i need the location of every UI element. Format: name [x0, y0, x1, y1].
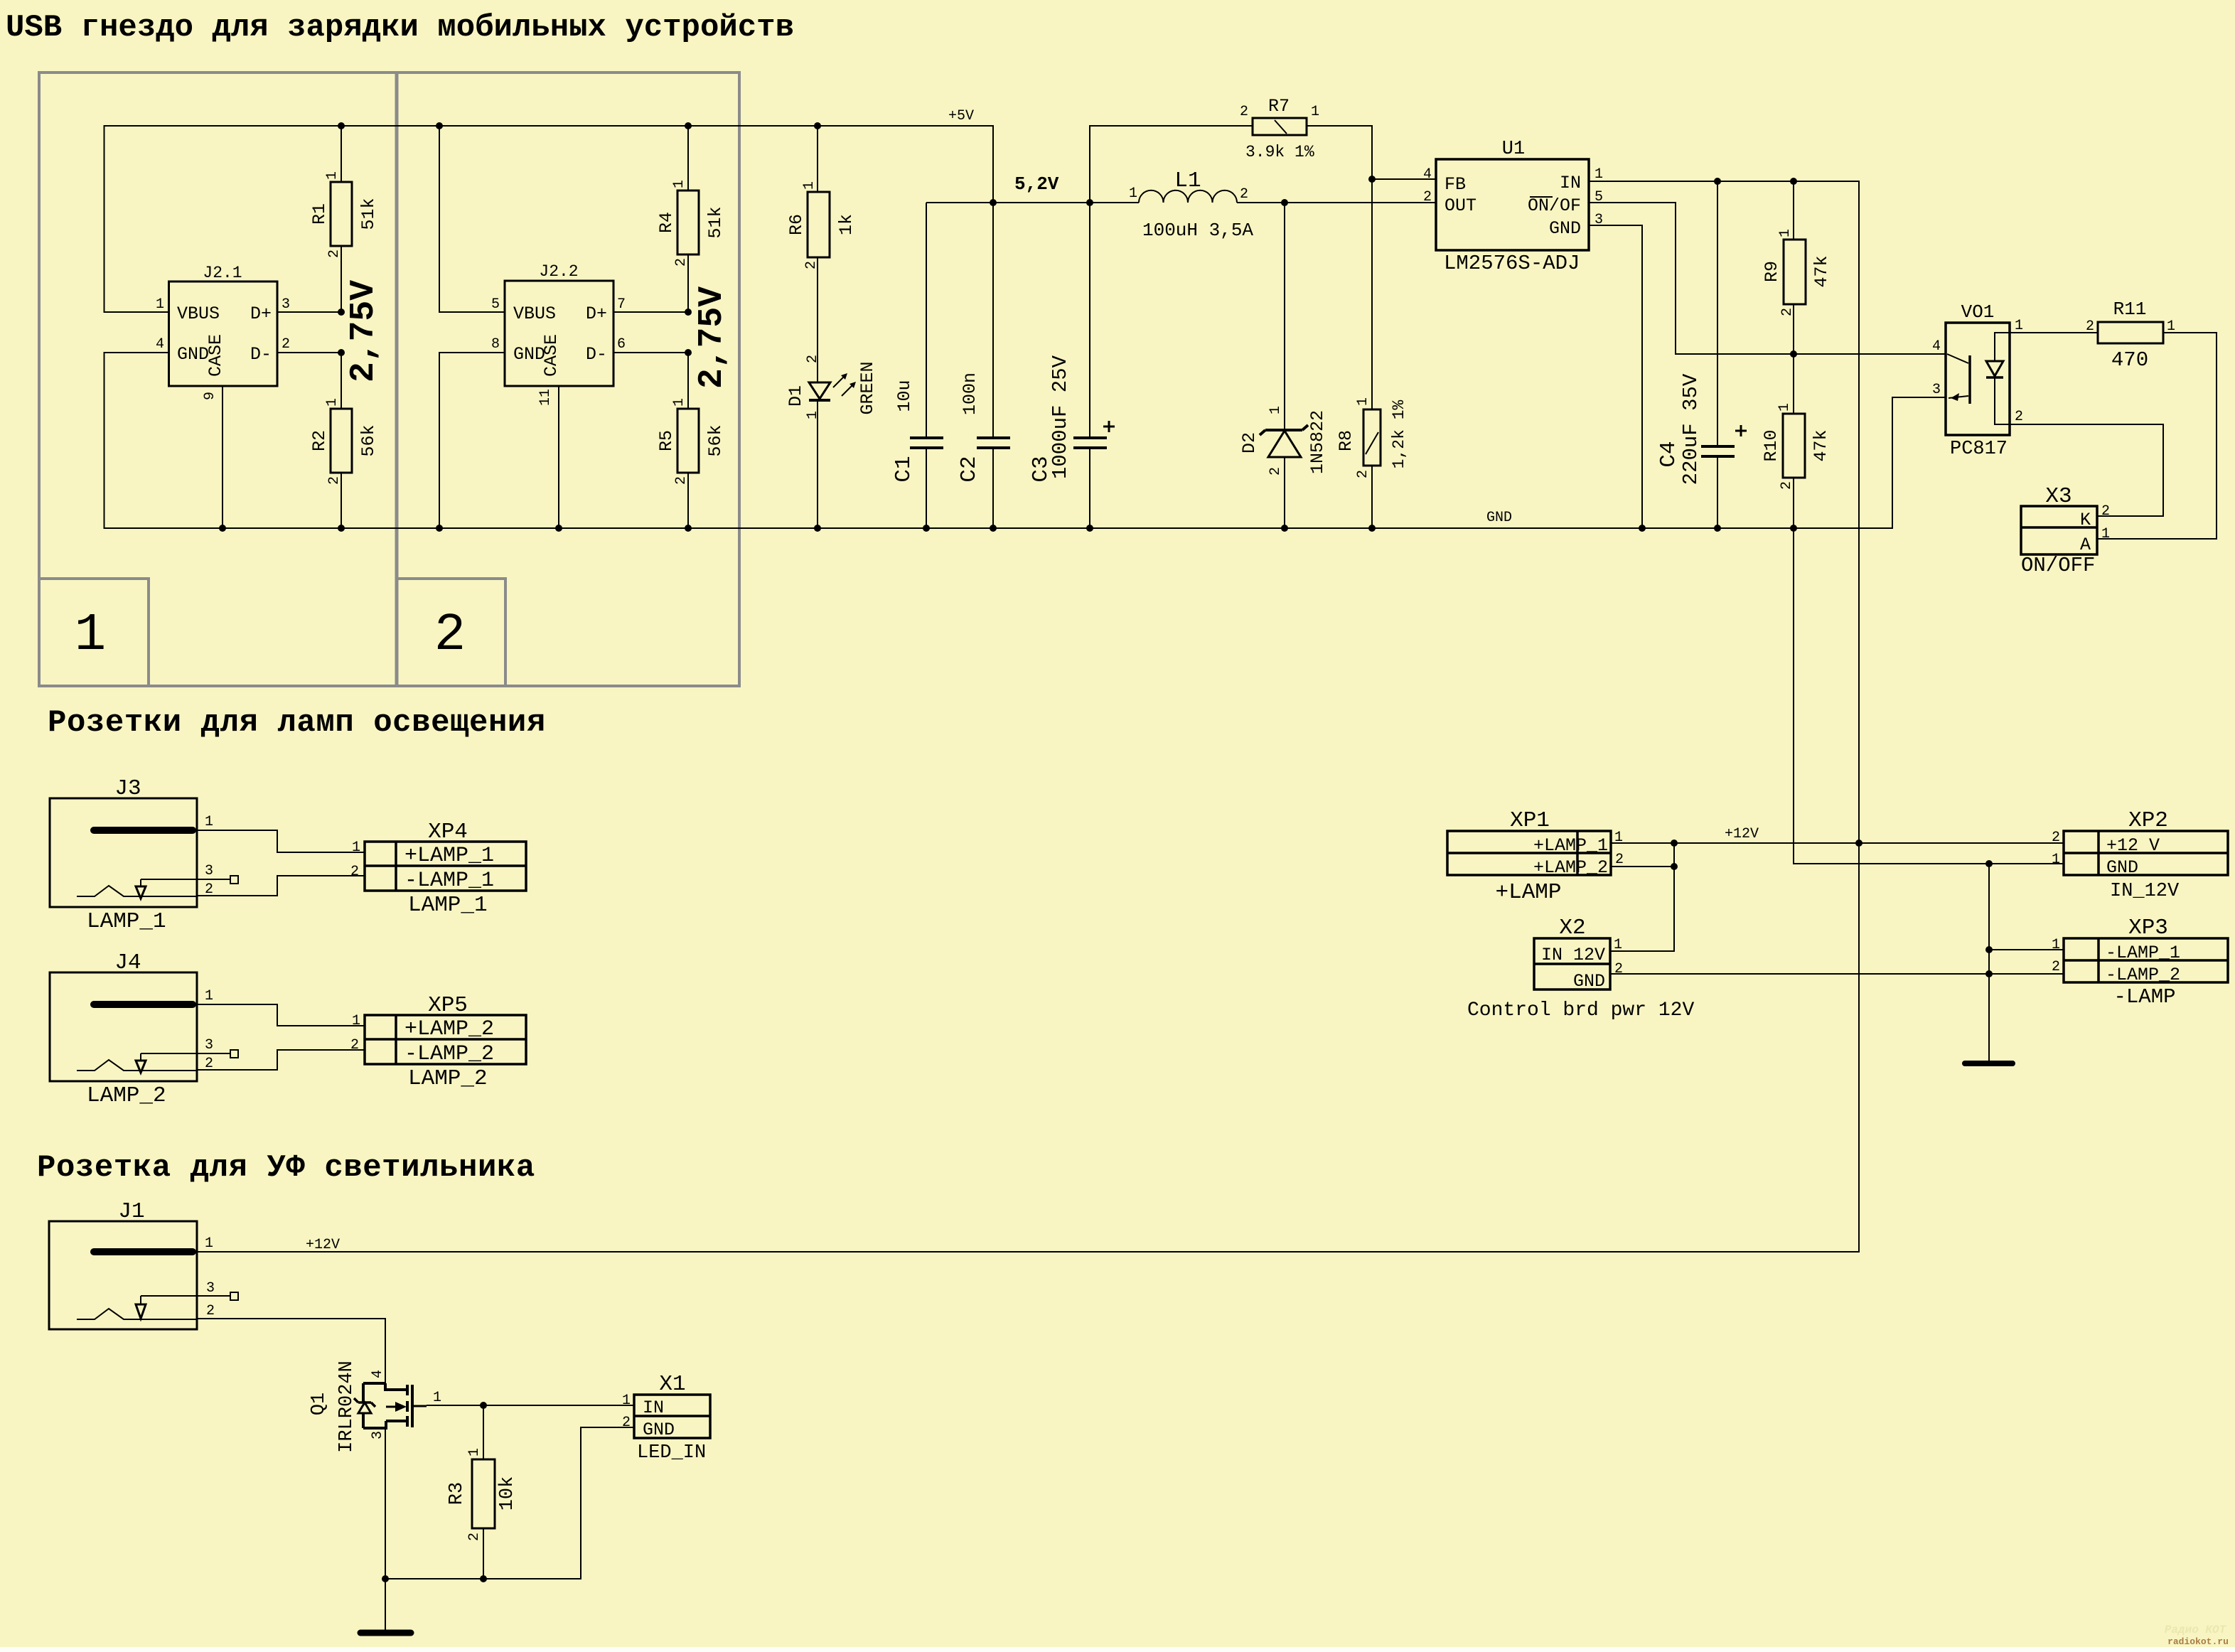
wire C3 top [1089, 203, 1090, 438]
svg-text:XP4: XP4 [428, 820, 468, 844]
svg-text:IN_12V: IN_12V [2110, 881, 2180, 902]
resistor R11 [2086, 299, 2175, 372]
svg-text:1: 1 [324, 398, 341, 407]
svg-text:C4: C4 [1656, 441, 1681, 467]
svg-text:1: 1 [433, 1390, 441, 1406]
connector X3 ON/OFF [2021, 484, 2110, 577]
wire R4 bottom to D+ [687, 254, 689, 312]
wire R7 to FB node and R8 [1307, 126, 1372, 409]
svg-text:1N5822: 1N5822 [1307, 410, 1328, 474]
junction dots bottom section [382, 1402, 487, 1582]
wire +5V net [104, 126, 994, 438]
wire R6 to D1 [817, 257, 818, 382]
connector XP3 -LAMP [2052, 916, 2228, 1009]
svg-text:J3: J3 [114, 776, 141, 801]
wire J2.1 D+ pin 3 [277, 311, 341, 313]
svg-text:1: 1 [324, 171, 341, 180]
ground symbol bottom [360, 1630, 411, 1636]
svg-text:D+: D+ [586, 304, 607, 324]
svg-text:D+: D+ [250, 304, 272, 324]
connector X2 control board power [1467, 916, 1694, 1021]
wire J2.2 VBUS pin 5 [439, 126, 505, 312]
svg-text:ON/OF: ON/OF [1528, 195, 1581, 216]
wire R4 top [687, 126, 689, 191]
wire 5.2V output net [926, 202, 1436, 203]
svg-text:J2.2: J2.2 [539, 262, 578, 281]
wire Q1 source pin3 down [385, 1428, 386, 1579]
wire J1 pin3 no-connect [197, 1295, 230, 1297]
svg-text:2: 2 [673, 476, 690, 485]
svg-text:1: 1 [2167, 318, 2175, 335]
svg-text:1: 1 [671, 398, 687, 407]
svg-text:1: 1 [1129, 186, 1137, 202]
svg-text:2: 2 [805, 355, 821, 363]
svg-text:1: 1 [801, 181, 818, 190]
svg-text:1: 1 [1614, 937, 1622, 953]
wire GND bus [104, 353, 1946, 528]
svg-text:XP5: XP5 [428, 993, 468, 1018]
svg-text:IN: IN [1560, 173, 1581, 193]
svg-text:R1: R1 [309, 203, 330, 225]
svg-text:2: 2 [1779, 481, 1795, 490]
wire R3 top [483, 1405, 484, 1459]
svg-text:2: 2 [2052, 830, 2060, 846]
svg-text:220uF 35V: 220uF 35V [1679, 373, 1703, 485]
svg-text:+12 V: +12 V [2106, 835, 2160, 856]
wire C1 top [926, 203, 927, 438]
svg-text:GND: GND [1486, 510, 1512, 526]
svg-text:IRLR024N: IRLR024N [336, 1361, 358, 1453]
svg-text:+LAMP_2: +LAMP_2 [404, 1017, 494, 1041]
wire U1 IN to +12V rail down to J1 pin1 [197, 181, 1859, 1252]
svg-text:2: 2 [2015, 409, 2023, 425]
resistor R8 [1336, 397, 1408, 478]
svg-text:D-: D- [250, 344, 272, 365]
svg-text:GND: GND [643, 1420, 675, 1440]
junction dots 5.2V net [990, 199, 1288, 206]
resistor R10 [1761, 403, 1831, 490]
wire XP4 pin2 to J3 pin2 [197, 876, 365, 896]
svg-text:VO1: VO1 [1961, 301, 1995, 323]
wire C3 bottom [1089, 448, 1090, 528]
junction dots GND row [1985, 860, 1993, 977]
wire R7 feed from 5.2V [1090, 126, 1253, 203]
svg-text:100n: 100n [960, 372, 980, 415]
svg-text:1: 1 [622, 1393, 631, 1409]
resistor R5 [656, 398, 726, 485]
wire XP5 pin2 to J4 pin2 [197, 1050, 365, 1070]
svg-text:J2.1: J2.1 [203, 264, 242, 282]
svg-text:2: 2 [2101, 503, 2110, 520]
svg-text:D2: D2 [1239, 432, 1260, 454]
svg-text:+LAMP_1: +LAMP_1 [1533, 835, 1608, 856]
svg-text:51k: 51k [705, 206, 726, 238]
svg-text:+LAMP_1: +LAMP_1 [404, 844, 494, 868]
svg-text:3.9k 1%: 3.9k 1% [1245, 143, 1314, 161]
wire XP3 pin1 stub [1989, 949, 2064, 950]
junction dots +12V line [1671, 840, 1862, 870]
svg-text:CASE: CASE [541, 334, 562, 377]
svg-text:+5V: +5V [948, 108, 974, 124]
junction dots GND bus [219, 525, 1797, 532]
svg-text:U1: U1 [1502, 139, 1525, 160]
wire R1 bottom to D+ [341, 246, 342, 312]
resistor R4 [656, 180, 726, 267]
wire D1 to GND [817, 401, 818, 528]
bottom white edge strip [0, 1647, 2235, 1652]
wire R11 to X3 pin1 A [2097, 333, 2217, 539]
svg-text:5: 5 [1594, 189, 1603, 205]
svg-text:2: 2 [326, 250, 343, 258]
svg-text:FB: FB [1445, 174, 1466, 195]
connector X1 LED_IN [622, 1372, 710, 1464]
svg-text:1: 1 [1594, 166, 1603, 183]
capacitor C3 [1029, 355, 1115, 482]
svg-text:2: 2 [205, 881, 213, 898]
junction dots D+/D- nodes [338, 309, 692, 356]
capacitor C1 [891, 380, 943, 482]
svg-text:Радио КОТ: Радио КОТ [2165, 1624, 2227, 1636]
svg-text:LAMP_2: LAMP_2 [87, 1083, 166, 1108]
svg-text:1: 1 [671, 180, 687, 188]
wire R3 bottom [483, 1528, 484, 1579]
svg-text:5: 5 [491, 296, 500, 313]
svg-text:J4: J4 [114, 950, 141, 975]
svg-text:1000uF 25V: 1000uF 25V [1049, 355, 1072, 479]
wire source GND run to X1 GND [385, 1427, 634, 1579]
svg-text:R2: R2 [309, 430, 330, 451]
svg-text:6: 6 [617, 336, 626, 353]
svg-text:51k: 51k [358, 198, 379, 230]
wire X2 pin1 riser [1610, 843, 1674, 951]
svg-text:47k: 47k [1811, 255, 1832, 287]
svg-text:3: 3 [1594, 212, 1603, 228]
svg-text:XP1: XP1 [1510, 808, 1550, 833]
svg-text:11: 11 [537, 389, 554, 406]
svg-text:-LAMP_1: -LAMP_1 [2106, 943, 2180, 963]
wire D2 top [1284, 203, 1285, 430]
svg-text:1: 1 [1776, 403, 1793, 412]
connector XP1 +LAMP [1447, 808, 1624, 905]
svg-text:1: 1 [352, 1013, 360, 1029]
resistor R2 [309, 398, 379, 485]
svg-text:1: 1 [2101, 526, 2110, 542]
wire J2.2 D- pin 6 [613, 352, 688, 353]
wire J4 pin1 to XP5 pin1 [197, 1004, 365, 1026]
svg-text:R11: R11 [2113, 299, 2147, 320]
svg-text:+LAMP_2: +LAMP_2 [1533, 857, 1608, 878]
wire J2.1 D- pin 2 [277, 352, 341, 353]
svg-text:USB гнездо для зарядки мобильн: USB гнездо для зарядки мобильных устройс… [6, 10, 794, 45]
svg-text:X2: X2 [1559, 916, 1585, 940]
svg-text:LAMP_1: LAMP_1 [87, 909, 166, 934]
svg-text:2,75V: 2,75V [345, 280, 383, 382]
svg-text:R3: R3 [446, 1482, 468, 1505]
svg-text:R6: R6 [786, 214, 807, 235]
wire J2.2 D+ pin 7 [613, 311, 688, 313]
wire R8 bottom [1371, 466, 1373, 528]
svg-text:4: 4 [156, 336, 164, 353]
svg-text:2: 2 [326, 476, 343, 485]
svg-text:GND: GND [2106, 857, 2138, 878]
svg-text:K: K [2080, 510, 2091, 530]
svg-text:1: 1 [805, 411, 821, 419]
wire J2.2 GND pin 8 [439, 353, 505, 528]
svg-text:LAMP_1: LAMP_1 [408, 893, 488, 918]
svg-text:2: 2 [1267, 467, 1284, 476]
svg-text:-LAMP_1: -LAMP_1 [404, 869, 494, 893]
svg-text:GREEN: GREEN [857, 361, 878, 414]
svg-text:4: 4 [370, 1370, 386, 1378]
svg-text:GND: GND [177, 344, 209, 365]
resistor R1 [309, 171, 379, 258]
svg-text:PC817: PC817 [1950, 439, 2008, 460]
connector XP2 IN_12V [2052, 808, 2228, 902]
ground symbol near XP3 [1965, 1061, 2012, 1066]
svg-text:XP2: XP2 [2128, 808, 2168, 833]
MOSFET Q1 IRLR024N [309, 1361, 441, 1453]
svg-text:LM2576S-ADJ: LM2576S-ADJ [1444, 252, 1580, 275]
wire R10 bottom through GND to XP2 pin1 [1794, 478, 2064, 864]
svg-text:470: 470 [2111, 348, 2148, 372]
svg-text:GND: GND [1573, 971, 1605, 992]
svg-text:2: 2 [1615, 852, 1624, 868]
svg-text:X1: X1 [659, 1372, 685, 1397]
svg-text:R9: R9 [1762, 261, 1782, 282]
svg-text:2: 2 [803, 261, 820, 269]
jack connector J3 [50, 776, 238, 934]
wire XP1 pin2 stub [1611, 866, 1674, 867]
svg-text:2: 2 [622, 1415, 631, 1431]
wire X2 GND row to XP3 pin2 [1610, 973, 2064, 975]
wire R5 [687, 353, 689, 528]
wire VO1 pin1 to R11 [2010, 332, 2098, 333]
inductor L1 [1129, 168, 1253, 241]
svg-text:1: 1 [1777, 229, 1794, 237]
svg-text:IN: IN [643, 1398, 664, 1418]
svg-text:GND: GND [1549, 218, 1581, 239]
svg-text:radiokot.ru: radiokot.ru [2167, 1636, 2229, 1647]
svg-text:2: 2 [206, 1303, 215, 1319]
wire U1 ON/OF to VO1 pin 4 [1590, 203, 1946, 354]
wire Q1 gate pin1 to X1 IN [427, 1405, 634, 1406]
svg-text:8: 8 [491, 336, 500, 353]
svg-text:9: 9 [202, 392, 218, 400]
svg-text:Q1: Q1 [309, 1393, 330, 1415]
svg-text:2: 2 [1240, 104, 1248, 120]
svg-text:2,75V: 2,75V [693, 286, 731, 389]
svg-text:1k: 1k [836, 214, 857, 235]
svg-text:LAMP_2: LAMP_2 [408, 1066, 488, 1091]
svg-text:5,2V: 5,2V [1014, 173, 1059, 195]
svg-text:3: 3 [1932, 382, 1941, 398]
svg-text:4: 4 [1932, 338, 1941, 355]
wire R2 [341, 353, 342, 528]
optocoupler VO1 PC817 [1932, 301, 2023, 460]
wire R9 bottom to R10 top [1793, 304, 1794, 414]
svg-text:56k: 56k [358, 424, 379, 456]
svg-text:-LAMP_2: -LAMP_2 [2106, 965, 2180, 985]
wire D2 bottom [1284, 457, 1285, 528]
svg-text:IN 12V: IN 12V [1541, 945, 1605, 965]
svg-text:4: 4 [1423, 166, 1432, 183]
svg-text:R8: R8 [1336, 430, 1356, 451]
USB section sub-box 1 [39, 579, 149, 686]
wire C2 bottom [992, 448, 994, 528]
jack connector J1 [49, 1199, 238, 1329]
svg-text:A: A [2080, 535, 2091, 555]
USB connector J2.2 [491, 262, 626, 406]
svg-text:LED_IN: LED_IN [637, 1442, 706, 1464]
svg-text:D1: D1 [786, 385, 806, 407]
wire FB stub to U1 [1372, 178, 1436, 180]
svg-text:2: 2 [434, 606, 466, 665]
svg-text:1: 1 [1311, 104, 1319, 120]
svg-text:Розетки для ламп освещения: Розетки для ламп освещения [48, 705, 546, 741]
svg-text:3: 3 [282, 296, 290, 313]
wire GND drop to ground symbol [1988, 864, 1990, 1061]
wire J3 pin1 to XP4 pin1 [197, 830, 365, 852]
svg-text:C2: C2 [957, 456, 982, 482]
USB connector J2.1 [156, 264, 290, 400]
wire R6 top [817, 126, 818, 192]
svg-text:J1: J1 [118, 1199, 144, 1224]
svg-text:X3: X3 [2045, 484, 2071, 509]
svg-text:2: 2 [350, 864, 359, 880]
svg-text:1: 1 [205, 988, 213, 1004]
diode D2 1N5822 [1239, 406, 1328, 476]
jack connector J4 [50, 950, 238, 1108]
resistor R6 [786, 181, 857, 269]
svg-text:VBUS: VBUS [177, 304, 220, 324]
LED D1 [786, 355, 878, 419]
svg-text:L1: L1 [1174, 168, 1201, 193]
svg-text:+12V: +12V [306, 1237, 340, 1253]
svg-text:1: 1 [2015, 318, 2023, 334]
svg-text:VBUS: VBUS [513, 304, 556, 324]
svg-text:1: 1 [466, 1448, 483, 1457]
svg-text:1: 1 [2052, 937, 2060, 953]
junction dots +5V net [338, 122, 821, 129]
svg-text:1: 1 [1267, 406, 1284, 414]
svg-text:Розетка для УФ светильника: Розетка для УФ светильника [37, 1150, 535, 1186]
svg-text:47k: 47k [1811, 429, 1831, 461]
svg-text:+12V: +12V [1725, 826, 1759, 842]
junction dot FB node [1368, 176, 1376, 183]
svg-text:2: 2 [466, 1533, 483, 1541]
svg-text:-LAMP_2: -LAMP_2 [404, 1042, 494, 1066]
resistor R3 [446, 1448, 518, 1541]
svg-text:2: 2 [1355, 470, 1371, 478]
svg-text:2: 2 [1779, 308, 1796, 316]
svg-text:R7: R7 [1268, 96, 1290, 117]
connector XP5 LAMP_2 [350, 993, 526, 1091]
wire C4 top [1717, 181, 1718, 446]
svg-text:-LAMP: -LAMP [2113, 985, 2175, 1009]
svg-text:D-: D- [586, 344, 607, 365]
svg-text:10u: 10u [894, 380, 915, 412]
svg-text:OUT: OUT [1445, 195, 1476, 216]
USB section sub-box 2 [397, 579, 505, 686]
svg-text:R5: R5 [656, 430, 677, 451]
wire C1 bottom [926, 448, 927, 528]
svg-text:1: 1 [1355, 397, 1371, 406]
svg-text:100uH 3,5A: 100uH 3,5A [1142, 220, 1253, 241]
wire ground drop bottom [385, 1579, 386, 1630]
USB section gray frame [39, 73, 739, 686]
svg-text:Control brd pwr 12V: Control brd pwr 12V [1467, 999, 1694, 1021]
USB section divider [395, 73, 399, 686]
svg-text:10k: 10k [497, 1476, 518, 1511]
svg-text:3: 3 [205, 863, 213, 879]
capacitor C4 [1656, 373, 1747, 485]
svg-text:3: 3 [370, 1431, 386, 1439]
connector XP4 LAMP_1 [350, 820, 526, 918]
svg-text:56k: 56k [705, 424, 726, 456]
wire J2.1 CASE pin 9 [222, 386, 223, 528]
svg-text:1,2k 1%: 1,2k 1% [1390, 399, 1408, 468]
wire R1 top [341, 126, 342, 182]
wire J3 pin3 no-connect [197, 879, 230, 880]
junction dots IN line [1714, 178, 1797, 185]
svg-text:CASE: CASE [205, 334, 226, 377]
svg-text:2: 2 [205, 1056, 213, 1072]
svg-text:1: 1 [352, 840, 360, 856]
svg-text:2: 2 [282, 336, 290, 353]
svg-text:2: 2 [1423, 189, 1432, 205]
svg-text:XP3: XP3 [2128, 916, 2168, 940]
wire C4 bottom [1717, 456, 1718, 528]
wire J2.2 CASE pin 11 [558, 386, 559, 528]
junction dot ON/OF node [1790, 350, 1797, 358]
wire U1 GND pin to GND bus [1590, 225, 1642, 528]
wire J4 pin3 no-connect [197, 1053, 230, 1054]
svg-text:ON/OFF: ON/OFF [2021, 554, 2095, 577]
capacitor C2 [957, 372, 1010, 483]
svg-text:1: 1 [1614, 830, 1623, 846]
svg-text:2: 2 [350, 1037, 359, 1053]
svg-text:3: 3 [205, 1037, 213, 1053]
svg-text:2: 2 [1614, 961, 1623, 977]
wire +12V distribution line [1611, 842, 2064, 844]
svg-text:R4: R4 [656, 212, 677, 233]
svg-text:2: 2 [1240, 186, 1248, 203]
svg-text:C1: C1 [891, 456, 916, 482]
resistor R9 [1762, 229, 1832, 316]
regulator U1 LM2576S-ADJ [1423, 139, 1603, 275]
svg-text:1: 1 [156, 296, 164, 313]
wire J1 pin2 to Q1 drain pin4 [197, 1319, 385, 1383]
svg-text:1: 1 [2052, 852, 2060, 868]
svg-text:1: 1 [205, 1235, 213, 1252]
svg-text:2: 2 [2052, 959, 2060, 975]
svg-text:1: 1 [75, 606, 106, 665]
svg-text:7: 7 [617, 296, 626, 313]
resistor R7 [1240, 96, 1319, 161]
svg-text:3: 3 [206, 1280, 215, 1297]
svg-text:R10: R10 [1761, 429, 1781, 461]
svg-text:2: 2 [2086, 318, 2094, 335]
svg-text:1: 1 [205, 814, 213, 830]
wire VO1 pin2 to X3 pin2 K [2010, 424, 2163, 516]
svg-text:2: 2 [673, 258, 690, 267]
wire R9 top [1793, 181, 1794, 240]
svg-text:+LAMP: +LAMP [1495, 880, 1561, 905]
